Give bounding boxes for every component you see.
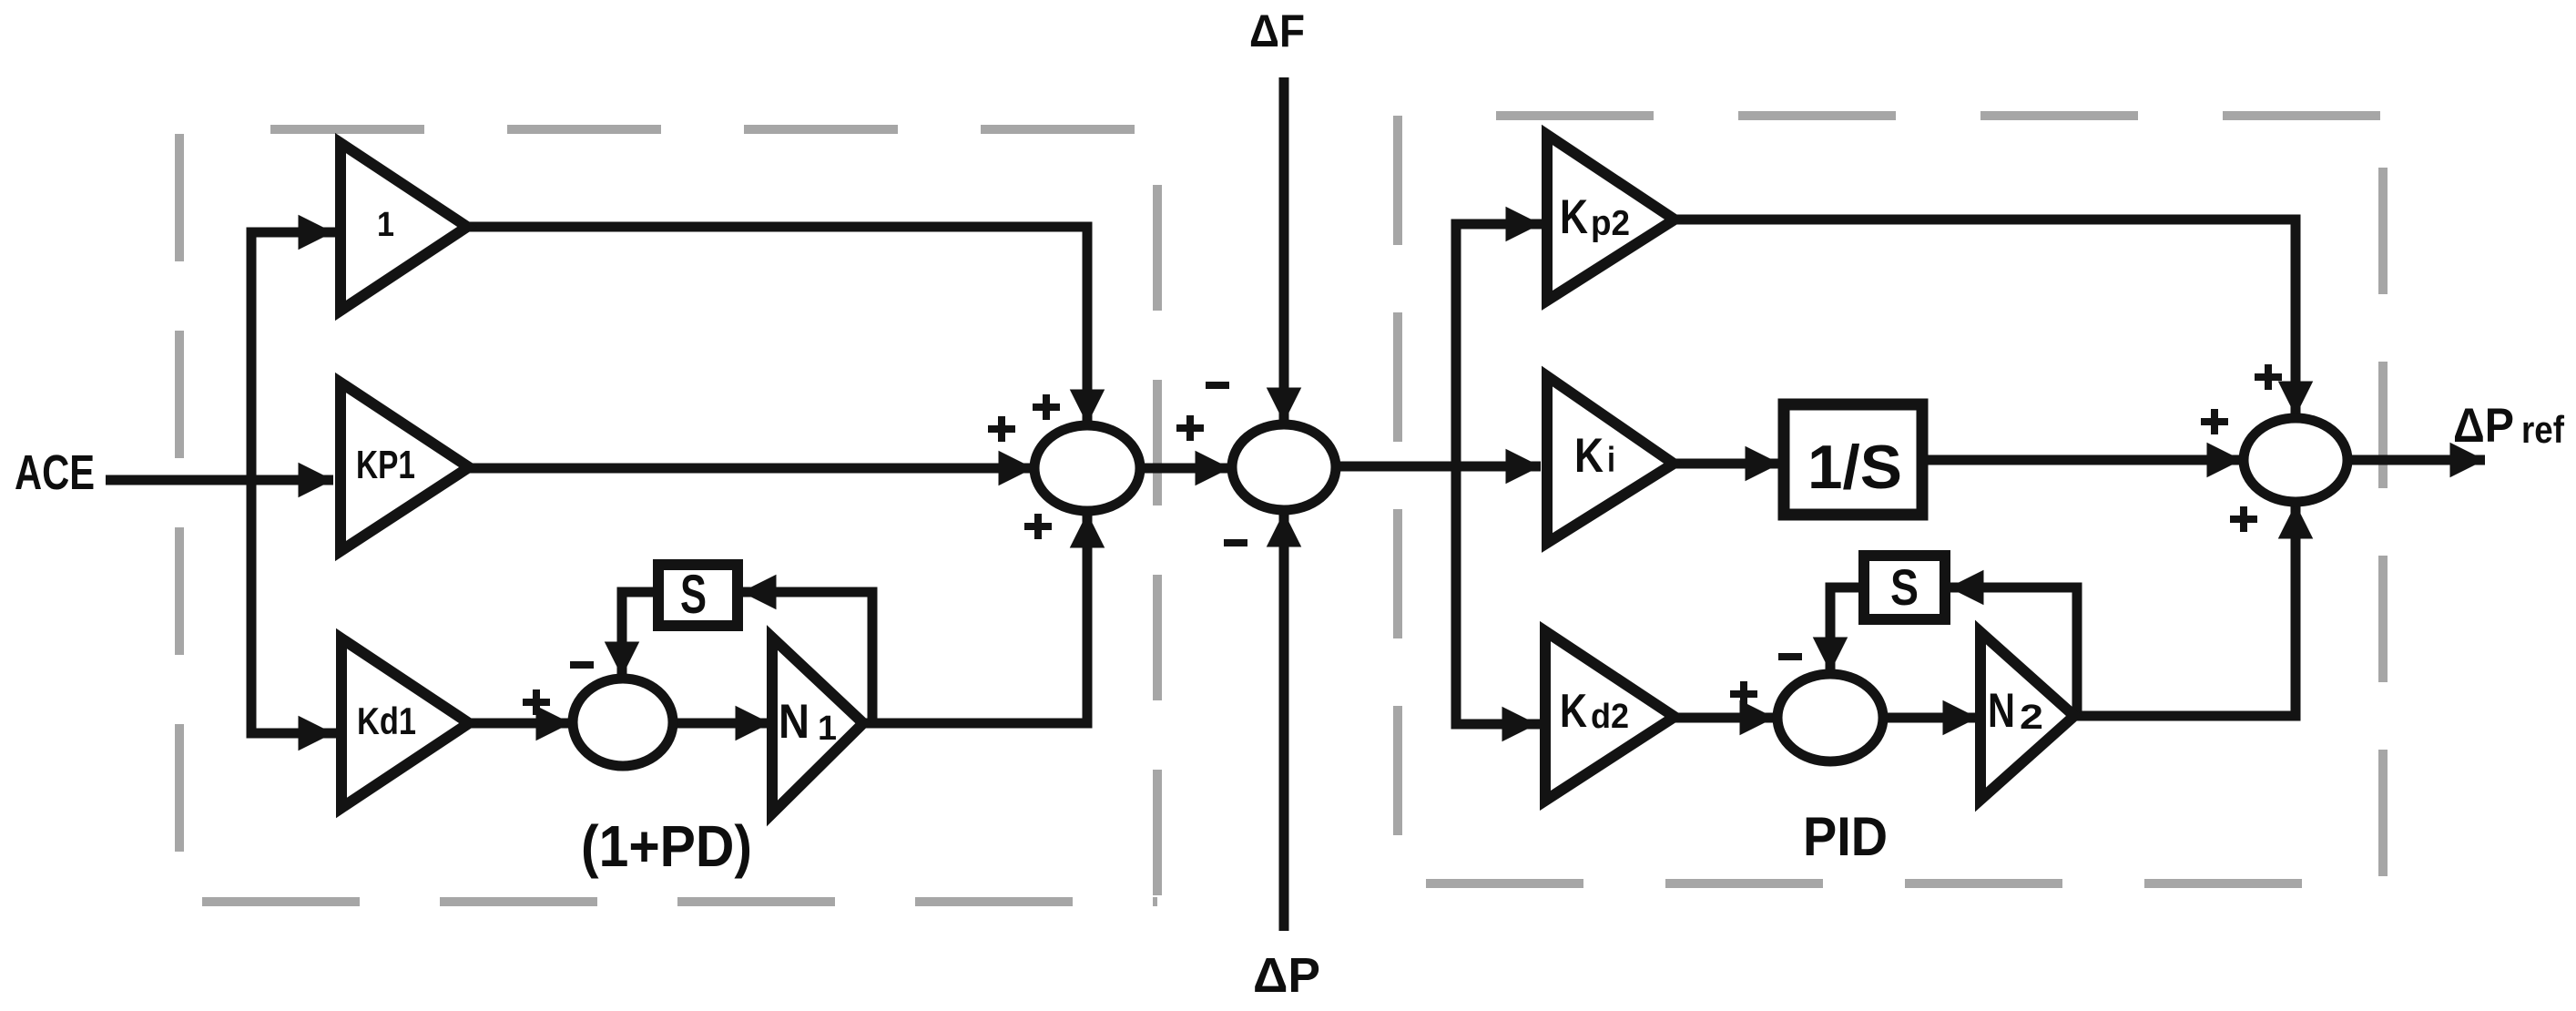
svg-text:p2: p2 <box>1591 204 1630 243</box>
plus S1 top <box>1033 394 1060 420</box>
svg-text:(1+PD): (1+PD) <box>581 813 752 879</box>
svg-text:ΔP: ΔP <box>2453 399 2514 453</box>
minus S3 bottom <box>1224 539 1247 546</box>
gain block Kp2 <box>1547 135 1675 301</box>
wire summer S4 to gain N2 <box>1883 713 1978 723</box>
wire S-block right to summer S4 top <box>1830 587 1864 672</box>
derivative S block left <box>658 565 738 626</box>
svg-text:PID: PID <box>1803 806 1888 867</box>
integrator 1/S block <box>1784 404 1922 515</box>
dashed box PID controller <box>1398 116 2383 883</box>
svg-text:ΔF: ΔF <box>1249 5 1305 56</box>
plus S5 top <box>2255 364 2282 390</box>
svg-text:S: S <box>680 564 707 625</box>
wire N2 output to summer S5 bottom <box>2074 504 2296 716</box>
wire ACE input <box>106 475 333 485</box>
summer S1 <box>1034 425 1140 511</box>
summer S4 (PID loop) <box>1777 674 1883 761</box>
wire dP input <box>1279 512 1289 931</box>
wire branch to gain Kd1 <box>251 729 333 739</box>
gain block KP1 <box>341 383 469 551</box>
wire summer S3 output to Ki <box>1336 462 1541 472</box>
plus S2 left <box>523 689 550 715</box>
wire S-block left to summer S2 top <box>622 592 658 677</box>
dashed box (1+PD) controller <box>179 129 1157 902</box>
svg-text:KP1: KP1 <box>356 443 415 487</box>
svg-text:1: 1 <box>377 206 394 244</box>
wire Kd2 output to summer S4 left <box>1675 713 1775 723</box>
gain block N1 <box>772 638 863 813</box>
summer S5 (output) <box>2244 418 2347 502</box>
plus S5 left <box>2201 409 2228 434</box>
plus S1 bottom <box>1024 514 1052 539</box>
wire Ki output to 1/S <box>1674 459 1780 469</box>
wire N1 feedback to S-block <box>741 592 872 723</box>
derivative S block right <box>1864 556 1945 619</box>
wire output dPref <box>2347 455 2485 465</box>
wire branch to Kp2 <box>1456 220 1541 230</box>
summer S3 <box>1232 424 1336 510</box>
svg-text:ΔP: ΔP <box>1253 948 1320 1003</box>
wire branch to Kd2 <box>1456 720 1537 730</box>
svg-text:ACE: ACE <box>15 445 95 500</box>
svg-text:ref: ref <box>2521 408 2565 451</box>
wire N2 feedback to S-block right <box>1949 587 2077 716</box>
svg-text:K: K <box>1574 429 1604 483</box>
svg-text:1: 1 <box>818 710 837 748</box>
svg-text:2: 2 <box>2020 699 2043 737</box>
gain block Kd1 <box>341 638 469 808</box>
plus S3 left <box>1176 415 1204 441</box>
wire N1 output to summer S1 bottom <box>863 513 1087 723</box>
gain block Ki <box>1547 376 1674 543</box>
svg-text:i: i <box>1607 441 1615 480</box>
wire dF input <box>1279 77 1289 423</box>
svg-text:d2: d2 <box>1591 698 1629 736</box>
plus S1 left <box>988 416 1015 442</box>
wire Kd1 output to summer S2 left <box>469 719 571 729</box>
summer S2 (PD loop) <box>573 679 673 766</box>
wire summer S1 to summer S3 <box>1139 464 1230 474</box>
minus S4 top <box>1778 653 1802 660</box>
sign marks <box>523 364 2282 715</box>
wire gain-1 output to summer S1 top <box>467 227 1087 424</box>
svg-text:1/S: 1/S <box>1807 433 1902 502</box>
wire KP1 output to summer S1 left <box>469 464 1033 474</box>
gain block N2 <box>1980 632 2074 800</box>
wire branch to gain 1 <box>251 228 333 238</box>
wire input branch vertical <box>247 232 257 733</box>
minus S2 top <box>570 661 594 669</box>
svg-text:N: N <box>779 695 809 749</box>
plus S5 bottom <box>2230 506 2257 532</box>
gain block 1 <box>341 143 467 311</box>
wire right branch vertical <box>1451 224 1461 724</box>
plus S4 left <box>1730 681 1757 707</box>
wire Kp2 output to summer S5 top <box>1675 220 2296 416</box>
gain block Kd2 <box>1545 631 1675 801</box>
minus S3 top <box>1206 382 1229 389</box>
wire 1/S output to summer S5 left <box>1922 455 2242 465</box>
svg-text:S: S <box>1890 558 1919 616</box>
svg-text:N: N <box>1988 684 2015 738</box>
svg-text:K: K <box>1560 190 1588 244</box>
wire summer S2 to gain N1 <box>673 719 770 729</box>
svg-text:K: K <box>1560 685 1587 738</box>
svg-text:Kd1: Kd1 <box>357 700 416 742</box>
